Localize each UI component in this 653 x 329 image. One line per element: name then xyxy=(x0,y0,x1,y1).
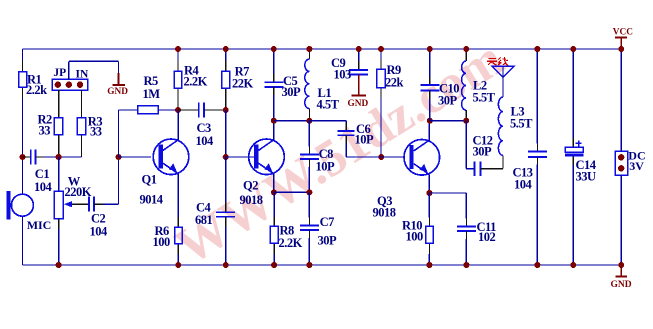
capacitor C5 xyxy=(264,49,301,121)
wire VCC column to DC connector xyxy=(620,49,622,151)
svg-text:104: 104 xyxy=(196,134,215,148)
wire IN pin to R3 xyxy=(81,90,83,118)
node L2 bottom junction xyxy=(463,118,469,124)
node Q1 base junction xyxy=(116,154,122,160)
node C13 top rail xyxy=(534,46,540,52)
inductor L3 5.5T xyxy=(498,97,533,155)
capacitor C4 xyxy=(195,201,235,266)
svg-text:33U: 33U xyxy=(576,169,597,183)
svg-text:Q2: Q2 xyxy=(243,179,258,193)
svg-text:C2: C2 xyxy=(91,212,106,226)
node L2 top rail xyxy=(463,46,469,52)
node R6 bottom rail xyxy=(175,262,181,268)
resistor R6 xyxy=(153,217,183,265)
node R9 bottom / Q3 base xyxy=(378,154,384,160)
node R7 top rail xyxy=(223,46,229,52)
svg-text:220K: 220K xyxy=(65,185,92,199)
capacitor C10 xyxy=(420,49,459,121)
wire Q2-base column down to C4 xyxy=(225,157,227,202)
svg-text:5.5T: 5.5T xyxy=(510,117,533,131)
node C4 bottom rail xyxy=(223,262,229,268)
node R8 bottom rail xyxy=(271,262,277,268)
svg-text:IN: IN xyxy=(76,68,89,80)
power VCC symbol xyxy=(613,28,633,49)
connector JP/IN xyxy=(52,67,89,90)
connector DC 3V xyxy=(615,149,646,176)
ground GND symbol bottom right xyxy=(611,265,632,290)
node R7 bottom / C3 junction xyxy=(223,107,229,113)
svg-text:1M: 1M xyxy=(143,87,161,101)
potentiometer W 220K xyxy=(54,174,92,219)
antenna 天线 xyxy=(487,57,514,97)
node C10 top rail xyxy=(427,46,433,52)
svg-text:30P: 30P xyxy=(438,94,458,108)
capacitor C2 xyxy=(80,197,108,239)
wire audio node row xyxy=(44,156,82,158)
node Q2 emitter xyxy=(271,189,277,195)
wire collector row to L1 xyxy=(274,120,310,122)
svg-text:5.5T: 5.5T xyxy=(473,91,496,105)
wire connector middle pin to GND xyxy=(69,61,119,79)
resistor R5 xyxy=(138,74,161,114)
node C13 bottom rail xyxy=(534,262,540,268)
node C14 top rail xyxy=(570,46,576,52)
resistor R3 xyxy=(77,114,102,157)
capacitor C8 xyxy=(300,121,335,193)
svg-text:3V: 3V xyxy=(629,159,644,173)
svg-text:100: 100 xyxy=(153,235,171,249)
svg-text:22K: 22K xyxy=(232,77,254,91)
resistor R9 xyxy=(377,49,404,157)
svg-text:104: 104 xyxy=(34,180,53,194)
wire C2 to Q1 base node xyxy=(103,157,119,204)
capacitor C1 xyxy=(23,150,53,194)
wire Q3 emitter row to C11 xyxy=(429,193,466,219)
node C7 bottom rail xyxy=(306,262,312,268)
svg-text:2.2K: 2.2K xyxy=(184,75,208,89)
svg-text:2.2k: 2.2k xyxy=(26,83,47,97)
svg-text:GND: GND xyxy=(611,280,632,290)
wire Q2 emitter row xyxy=(274,191,310,193)
svg-text:102: 102 xyxy=(478,230,496,244)
node Q3 collector junction xyxy=(427,118,433,124)
resistor R7 xyxy=(222,49,254,110)
node L1 bottom junction xyxy=(306,118,312,124)
resistor R8 xyxy=(270,192,302,265)
svg-text:2.2K: 2.2K xyxy=(279,236,303,250)
node C8 bottom / emitter row xyxy=(306,189,312,195)
node R10 bottom rail xyxy=(426,262,432,268)
node Q2 base junction xyxy=(223,154,229,160)
resistor R10 xyxy=(402,193,433,265)
node C9 top rail xyxy=(356,46,362,52)
capacitor C14 electrolytic xyxy=(565,49,597,265)
node R2/W junction xyxy=(56,154,62,160)
wire JP pin to R2 xyxy=(58,90,60,118)
transistor Q1 9014 xyxy=(140,110,189,217)
svg-text:30P: 30P xyxy=(473,145,493,159)
node R4 bottom / Q1 collector xyxy=(175,107,181,113)
resistor R4 xyxy=(174,49,207,110)
node L1 top rail xyxy=(306,46,312,52)
ground GND symbol under C9 xyxy=(348,75,369,109)
svg-text:9018: 9018 xyxy=(373,206,396,220)
svg-text:9018: 9018 xyxy=(240,193,263,207)
wire base node up to R5 xyxy=(119,110,138,157)
inductor L1 4.5T xyxy=(305,49,340,121)
svg-text:GND: GND xyxy=(107,87,128,97)
ground GND symbol near connector xyxy=(107,73,128,97)
inductor L2 5.5T xyxy=(462,49,496,121)
wire node to potentiometer W xyxy=(58,157,60,191)
wire to Q2 base xyxy=(226,156,254,158)
svg-text:22k: 22k xyxy=(385,76,404,90)
svg-text:Q1: Q1 xyxy=(142,173,157,187)
svg-text:104: 104 xyxy=(90,225,109,239)
node C11 bottom rail xyxy=(463,262,469,268)
wire VCC top rail xyxy=(23,48,622,50)
svg-text:R5: R5 xyxy=(144,74,159,88)
svg-text:30P: 30P xyxy=(318,233,338,247)
transistor Q2 9018 xyxy=(240,121,285,208)
svg-text:GND: GND xyxy=(348,99,369,109)
svg-text:103: 103 xyxy=(334,68,352,82)
svg-text:33: 33 xyxy=(90,124,102,138)
node C5 top rail xyxy=(271,46,277,52)
node bottom rail right end xyxy=(618,262,624,268)
capacitor C13 xyxy=(513,49,547,265)
capacitor C6 xyxy=(309,121,374,157)
node Q3 emitter junction xyxy=(426,190,432,196)
capacitor C9 xyxy=(331,49,368,82)
node Q2 collector / C5 bottom xyxy=(271,118,277,124)
node W bottom rail xyxy=(56,262,62,268)
svg-text:681: 681 xyxy=(195,213,213,227)
svg-text:MIC: MIC xyxy=(27,218,52,232)
node R9 top rail xyxy=(378,46,384,52)
capacitor C12 xyxy=(473,134,504,176)
svg-text:JP: JP xyxy=(53,67,66,79)
node R4 top rail xyxy=(175,46,181,52)
capacitor C11 xyxy=(457,219,496,266)
node C14 bottom rail xyxy=(570,262,576,268)
wire L2 column down to C12 xyxy=(466,121,474,169)
wire Q3 collector row to L2 xyxy=(430,120,466,122)
resistor R2 xyxy=(38,112,63,157)
capacitor C7 xyxy=(300,192,337,265)
svg-text:4.5T: 4.5T xyxy=(317,98,340,112)
wire GND bottom rail xyxy=(23,264,622,266)
svg-text:30P: 30P xyxy=(282,85,302,99)
svg-text:C7: C7 xyxy=(320,215,335,229)
resistor R1 xyxy=(19,61,48,99)
wire R5 to R4 node xyxy=(158,109,178,111)
svg-text:10P: 10P xyxy=(355,133,375,147)
wire R7 node down to Q2 base row xyxy=(225,110,227,157)
svg-text:VCC: VCC xyxy=(613,28,633,38)
svg-text:33: 33 xyxy=(39,123,51,137)
transistor Q3 9018 xyxy=(373,121,440,220)
wire DC connector to bottom rail xyxy=(620,175,622,265)
microphone MIC xyxy=(7,191,52,232)
wire W bottom to rail xyxy=(58,219,60,265)
node VCC top rail corner xyxy=(618,46,624,52)
capacitor C3 xyxy=(178,103,226,148)
svg-text:9014: 9014 xyxy=(140,192,164,206)
svg-text:100: 100 xyxy=(406,230,424,244)
wire left rail xyxy=(22,49,24,265)
wire Q1 base lead xyxy=(119,156,152,158)
svg-text:10P: 10P xyxy=(316,160,336,174)
node left-rail / C1 junction xyxy=(20,154,26,160)
wire C6 to Q3 base xyxy=(346,156,404,158)
svg-text:104: 104 xyxy=(514,178,533,192)
